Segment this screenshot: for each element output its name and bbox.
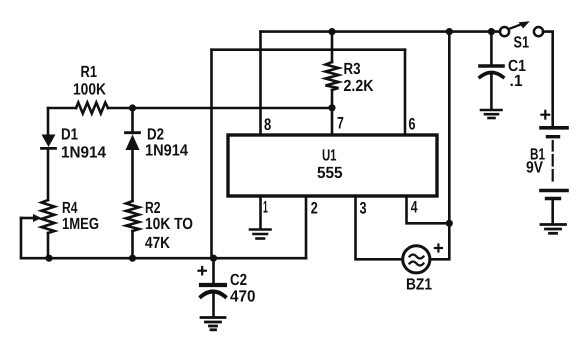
svg-text:U1: U1 bbox=[322, 147, 337, 165]
ground B1 bbox=[541, 225, 566, 234]
svg-text:.1: .1 bbox=[510, 72, 523, 90]
node R2 rail bbox=[129, 255, 136, 262]
wire R1 right to pin7 riser bbox=[108, 107, 332, 110]
svg-text:8: 8 bbox=[264, 115, 271, 134]
svg-text:1: 1 bbox=[263, 198, 268, 217]
ground pin 1 bbox=[250, 230, 271, 239]
svg-text:470: 470 bbox=[230, 288, 256, 306]
wire main horizontal node from R1 to pin 7 bbox=[48, 107, 76, 110]
capacitor C1 bbox=[480, 32, 503, 109]
wire left vertical top bbox=[47, 108, 50, 135]
label C1 bbox=[508, 57, 526, 90]
wire right vertical from rail to buzzer bbox=[430, 32, 449, 260]
wire pin 1 down bbox=[259, 196, 262, 229]
label C2 bbox=[230, 271, 256, 306]
capacitor C2 bbox=[201, 258, 225, 316]
switch S1 bbox=[500, 21, 543, 36]
node C2 rail bbox=[210, 255, 217, 262]
resistor R2 bbox=[126, 201, 139, 231]
wire R4 wiper return bbox=[20, 218, 23, 258]
node pin4 junction bbox=[446, 220, 453, 227]
svg-text:3: 3 bbox=[360, 198, 367, 217]
buzzer plus sign bbox=[435, 245, 442, 252]
wire top rail bbox=[261, 30, 500, 33]
wire pin 3 to buzzer bbox=[356, 196, 403, 259]
label D1 bbox=[61, 126, 106, 162]
svg-text:7: 7 bbox=[337, 114, 344, 133]
wire pin6 horizontal bbox=[212, 48, 406, 51]
resistor R3 bbox=[326, 62, 339, 90]
wire pin 8 riser bbox=[259, 32, 262, 135]
svg-text:555: 555 bbox=[317, 164, 343, 182]
svg-text:S1: S1 bbox=[514, 34, 530, 52]
wire D2 to R2 bbox=[131, 150, 134, 201]
svg-text:D1: D1 bbox=[61, 126, 78, 144]
svg-text:47K: 47K bbox=[145, 234, 170, 252]
node R3 top bbox=[328, 28, 335, 35]
wire pin 4 to right vertical bbox=[407, 196, 450, 223]
ground C1 bbox=[481, 110, 502, 118]
svg-text:1N914: 1N914 bbox=[145, 142, 188, 160]
svg-text:2.2K: 2.2K bbox=[344, 77, 374, 95]
svg-text:C2: C2 bbox=[230, 271, 247, 289]
diode D1 bbox=[42, 135, 56, 149]
wire pin 2 down to rail bbox=[305, 196, 308, 258]
label R4 bbox=[62, 199, 99, 233]
battery B1 bbox=[541, 128, 567, 223]
resistor R1 bbox=[76, 103, 108, 114]
svg-text:1MEG: 1MEG bbox=[62, 215, 99, 233]
wire R4 bottom to rail bbox=[47, 233, 50, 258]
wire D2 top bbox=[131, 108, 134, 133]
node C1 top bbox=[488, 28, 495, 35]
svg-text:6: 6 bbox=[409, 114, 416, 133]
label U1 555 bbox=[317, 147, 343, 183]
wire R3 top lead bbox=[331, 32, 334, 62]
svg-text:R3: R3 bbox=[344, 60, 361, 78]
wire S1 to battery bbox=[543, 32, 553, 126]
diode D2 bbox=[126, 133, 140, 150]
C2 plus sign bbox=[199, 267, 206, 274]
wire bottom rail bbox=[21, 257, 306, 260]
wire D1 to R4 bbox=[47, 148, 50, 200]
battery plus sign bbox=[541, 111, 549, 119]
svg-text:BZ1: BZ1 bbox=[406, 276, 432, 294]
potentiometer R4 bbox=[21, 200, 55, 233]
svg-text:2: 2 bbox=[311, 198, 318, 217]
label R3 bbox=[344, 60, 374, 95]
node pin7 main bbox=[328, 104, 335, 111]
op-amp U1 555 box bbox=[228, 135, 437, 196]
ground C2 bbox=[201, 318, 225, 330]
wire pin 7 riser bbox=[331, 90, 334, 135]
svg-text:1N914: 1N914 bbox=[61, 144, 106, 162]
wire threshold vertical x212 bbox=[210, 50, 213, 259]
label R2 bbox=[145, 199, 193, 252]
svg-text:4: 4 bbox=[411, 198, 418, 217]
buzzer BZ1 bbox=[403, 246, 430, 273]
svg-text:100K: 100K bbox=[73, 81, 106, 99]
node junction R1-D2 bbox=[129, 104, 136, 111]
label B1 9V bbox=[526, 146, 545, 177]
svg-text:R1: R1 bbox=[81, 63, 98, 81]
svg-text:10K TO: 10K TO bbox=[145, 215, 193, 233]
node R4 rail bbox=[45, 255, 52, 262]
wire R2 bottom to rail bbox=[131, 231, 134, 258]
svg-text:9V: 9V bbox=[526, 159, 543, 177]
wire pin 6 riser bbox=[404, 50, 407, 135]
node right vertical top bbox=[446, 28, 453, 35]
label D2 bbox=[145, 126, 188, 160]
label R1 bbox=[73, 63, 106, 99]
